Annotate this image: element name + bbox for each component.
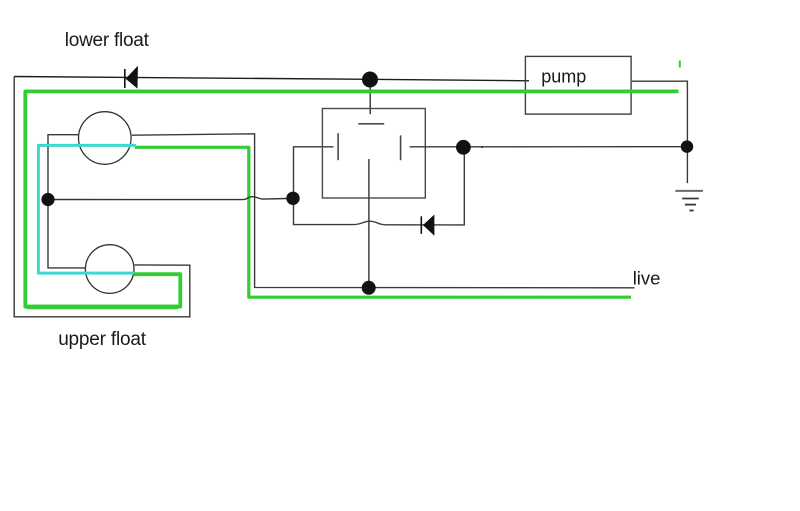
node: speck on wire bbox=[481, 146, 483, 148]
diode D2 (flyback, on bottom wire) bbox=[420, 216, 422, 234]
wire: lower-float right terminal down to live line bbox=[132, 134, 635, 288]
node: bottom live junction dot bbox=[362, 281, 376, 295]
svg-text:upper float: upper float bbox=[58, 329, 147, 350]
green wire main loop bbox=[25, 91, 678, 306]
relay pin: bottom (30) down to live junction bbox=[368, 159, 370, 288]
green wire live branch bbox=[135, 147, 631, 297]
pump box bbox=[525, 56, 631, 114]
wire: top feed line bbox=[14, 77, 529, 81]
node: top feed junction dot bbox=[362, 72, 378, 88]
wire: float junction to relay (with squiggle) bbox=[48, 197, 287, 200]
wire: relay right pin to pump-ground node bbox=[410, 146, 685, 148]
relay box U1 bbox=[322, 109, 425, 199]
float switch circle (lower float) bbox=[79, 112, 132, 165]
cyan wire bbox=[38, 145, 136, 273]
wire: relay-left junction down and across bottom (with hump) to right riser bbox=[294, 153, 465, 225]
node: pump-ground junction dot bbox=[681, 140, 693, 152]
node: float junction dot bbox=[41, 193, 54, 206]
green tick top right bbox=[679, 61, 681, 68]
wire: left outer vertical + bottom + right vertical to upper-float bbox=[14, 77, 190, 317]
diode D1 (on top feed line) bbox=[124, 69, 126, 88]
node: relay-right junction dot bbox=[456, 140, 471, 155]
svg-text:pump: pump bbox=[541, 66, 586, 86]
wire: lower-float left terminal branch bbox=[48, 135, 86, 268]
relay pin bar: top contact bbox=[358, 123, 384, 125]
svg-text:live: live bbox=[633, 268, 661, 289]
ground symbol bbox=[675, 190, 703, 192]
relay pin: top (86) bbox=[369, 84, 371, 114]
float switch circle (upper float) bbox=[85, 245, 134, 294]
svg-text:lower float: lower float bbox=[65, 30, 150, 51]
wire: relay-left junction up to coil pin bbox=[294, 147, 334, 198]
relay pin bar: left (85) bbox=[337, 133, 339, 160]
node: relay-left junction dot bbox=[286, 192, 299, 205]
relay pin bar: right (87) bbox=[400, 135, 402, 160]
wire: pump right to ground riser bbox=[632, 81, 687, 183]
